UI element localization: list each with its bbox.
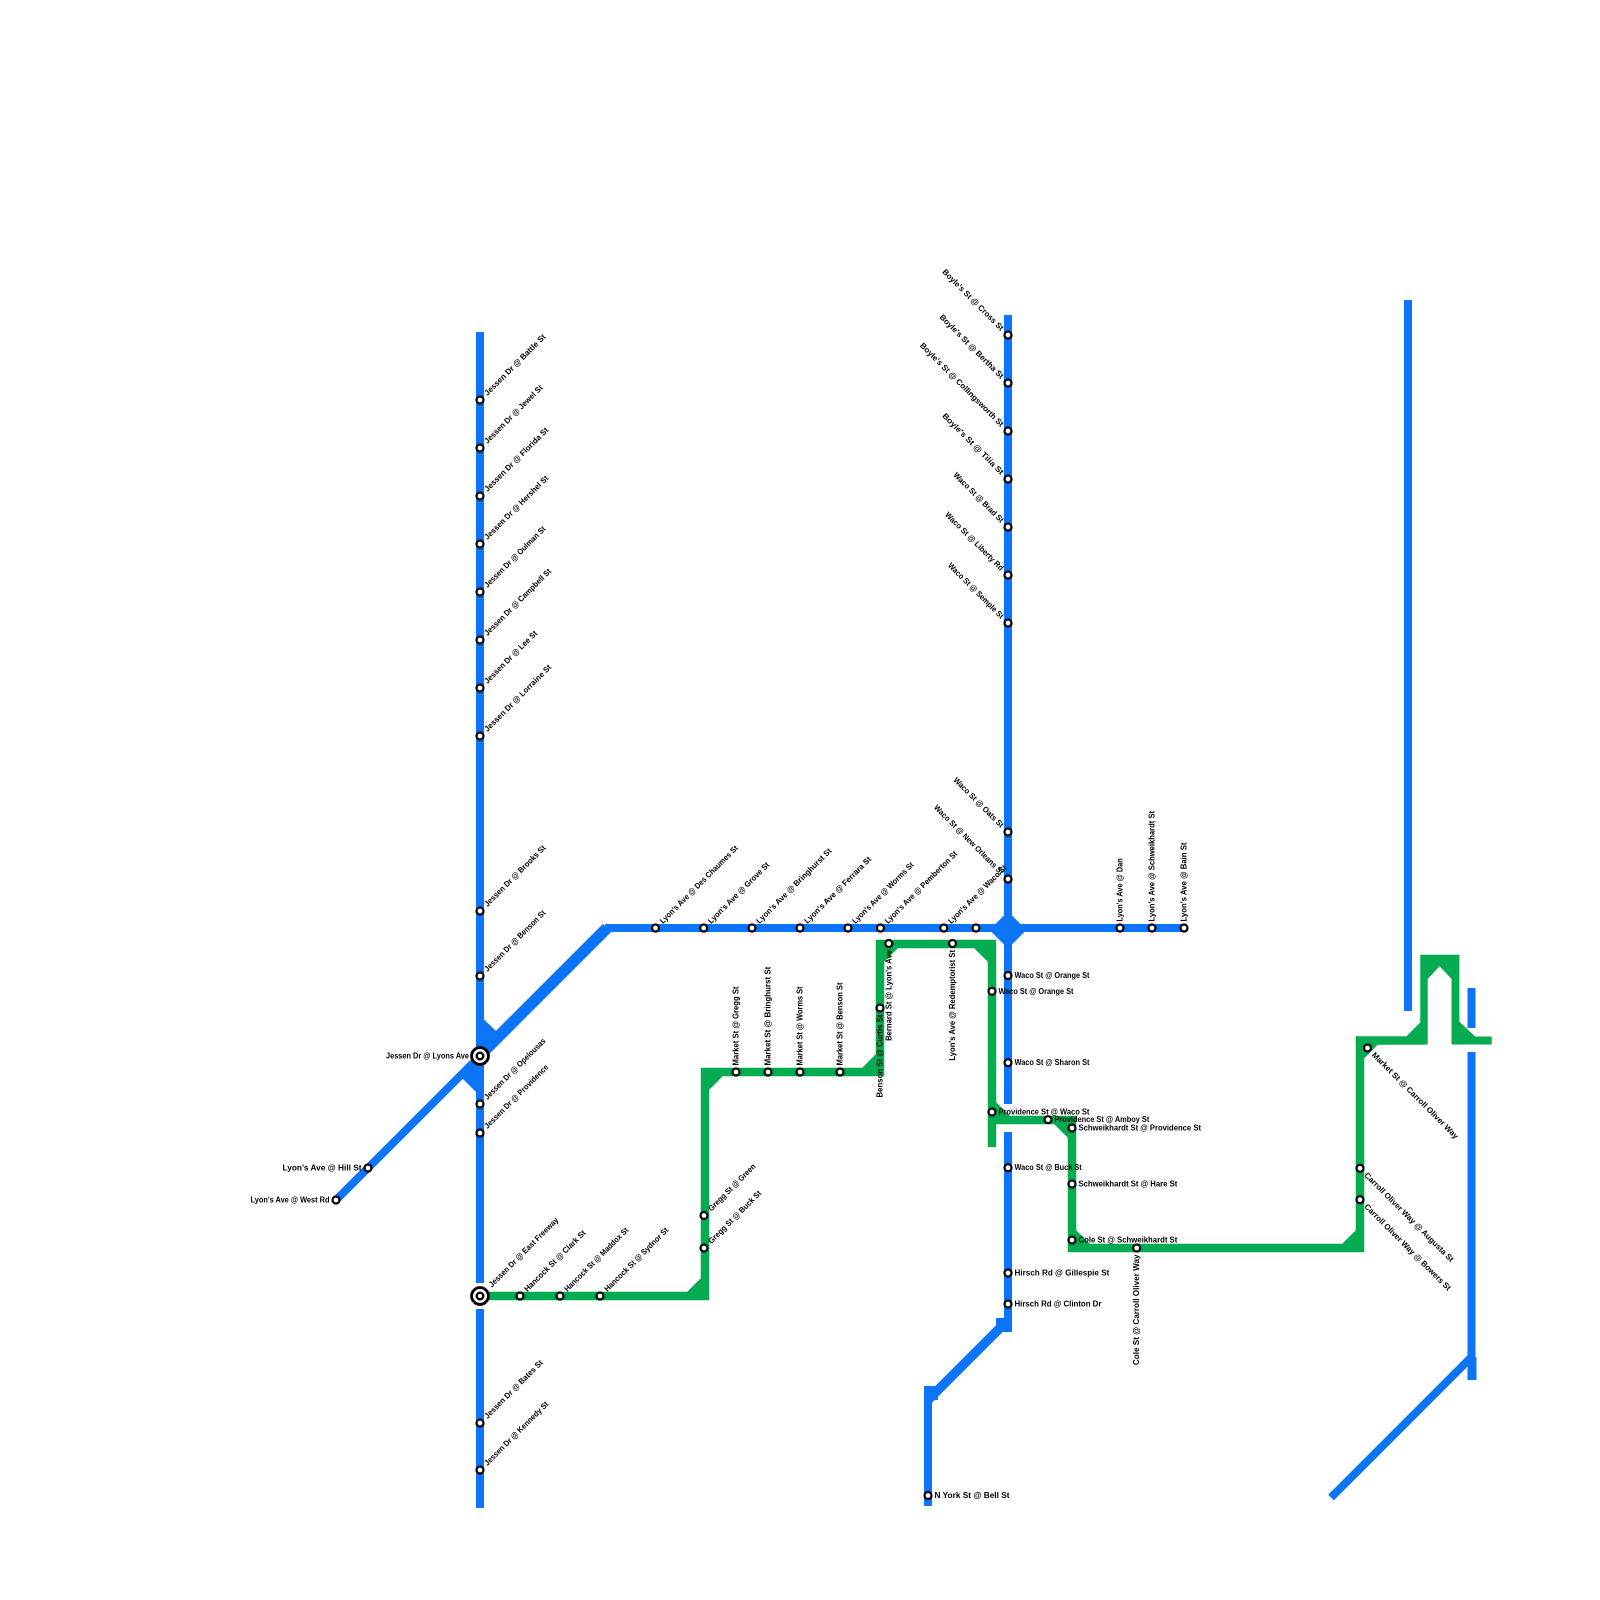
blue line: far-right vertical (upper) bbox=[1404, 300, 1412, 1011]
blue line: right vertical lower with diagonal to bottom bbox=[1331, 1052, 1472, 1498]
station: Boyle's St @ Tilia St bbox=[1005, 476, 1012, 483]
blue jog corner step lower bbox=[924, 1386, 938, 1400]
station: Market St @ Gregg St bbox=[733, 1069, 740, 1076]
station: Market St @ Worms St bbox=[797, 1069, 804, 1076]
station: Jessen Dr @ Campbell St bbox=[477, 637, 484, 644]
svg-text:Cole St @ Carroll Oliver Way: Cole St @ Carroll Oliver Way bbox=[1132, 1254, 1141, 1365]
blue line: right stub above green crossing bbox=[1468, 988, 1476, 1028]
station: Hancock St @ Sydnor St bbox=[597, 1293, 604, 1300]
station: Waco St @ Liberty Rd bbox=[1005, 572, 1012, 579]
blue gusset: corridor merge above Jessen/Lyons junction bbox=[484, 1020, 497, 1044]
station: Jessen Dr @ Brooks St bbox=[477, 908, 484, 915]
station: Hirsch Rd @ Clinton Dr bbox=[1005, 1301, 1012, 1308]
station: Waco St @ Brad St bbox=[1005, 524, 1012, 531]
station: Jessen Dr @ Jewel St bbox=[477, 445, 484, 452]
svg-text:Benson St @ Curtis St: Benson St @ Curtis St bbox=[876, 1014, 885, 1097]
svg-text:Schweikhardt St @ Hare St: Schweikhardt St @ Hare St bbox=[1079, 1180, 1178, 1189]
interchange station: Jessen Dr @ Lyons Ave bbox=[472, 1048, 489, 1065]
svg-text:Market St @ Bringhurst St: Market St @ Bringhurst St bbox=[764, 966, 773, 1065]
station: Providence St @ Amboy St bbox=[1045, 1116, 1052, 1123]
blue line: Lyon's Ave horizontal east of bend bbox=[605, 924, 1187, 932]
svg-text:Market St @ Benson St: Market St @ Benson St bbox=[836, 982, 845, 1065]
station: Waco St @ Oats St bbox=[1005, 829, 1012, 836]
station: Gregg St @ Buck St bbox=[701, 1245, 708, 1252]
station: Boyle's St @ Cross St bbox=[1005, 332, 1012, 339]
svg-text:Market St @ Worms St: Market St @ Worms St bbox=[796, 986, 805, 1065]
station: Bernard St @ Lyon's Ave bbox=[885, 940, 892, 947]
svg-text:Jessen Dr @ Lyons Ave: Jessen Dr @ Lyons Ave bbox=[386, 1052, 470, 1061]
station: Jessen Dr @ Battle St bbox=[477, 397, 484, 404]
svg-text:Lyon's Ave @ West Rd: Lyon's Ave @ West Rd bbox=[251, 1196, 330, 1205]
blue line: Lyon's Ave west diagonal from West Rd to junction bbox=[336, 1056, 480, 1200]
svg-text:Waco St @ Brad St: Waco St @ Brad St bbox=[952, 471, 1006, 525]
svg-text:Jessen Dr @ Brooks St: Jessen Dr @ Brooks St bbox=[483, 843, 548, 908]
green inner chamfer at corner (880,1072) bbox=[862, 1054, 878, 1070]
station: Jessen Dr @ Bates St bbox=[477, 1420, 484, 1427]
station: Waco St @ Buck St bbox=[1005, 1164, 1012, 1171]
station: Gregg St @ Green bbox=[701, 1212, 708, 1219]
svg-text:Waco St @ Orange St: Waco St @ Orange St bbox=[1015, 971, 1090, 980]
green inner chamfer at Gregg St corner (705,1296) bbox=[687, 1278, 703, 1294]
svg-text:Jessen Dr @ Lee St: Jessen Dr @ Lee St bbox=[483, 629, 540, 686]
interchange station: Jessen Dr @ East Freeway bbox=[472, 1288, 489, 1305]
station: Lyon's Ave @ West Rd bbox=[333, 1197, 340, 1204]
svg-text:Lyon's Ave @ Des Chaumes St: Lyon's Ave @ Des Chaumes St bbox=[658, 843, 740, 925]
station: Hirsch Rd @ Gillespie St bbox=[1005, 1270, 1012, 1277]
svg-text:Schweikhardt St @ Providence S: Schweikhardt St @ Providence St bbox=[1079, 1124, 1202, 1133]
station: Lyon's Ave @ Schweikhardt St bbox=[1149, 925, 1156, 932]
station: Cole St @ Carroll Oliver Way bbox=[1133, 1245, 1140, 1252]
station: Hancock St @ Maddox St bbox=[557, 1293, 564, 1300]
svg-text:Jessen Dr @ Benson St: Jessen Dr @ Benson St bbox=[483, 908, 548, 973]
station: Lyon's Ave @ Worms St bbox=[845, 925, 852, 932]
station: Jessen Dr @ Hershel St bbox=[477, 541, 484, 548]
svg-text:N York St @ Bell St: N York St @ Bell St bbox=[935, 1491, 1010, 1500]
station: Lyon's Ave @ Grove St bbox=[700, 925, 707, 932]
station: Jessen Dr @ Kennedy St bbox=[477, 1467, 484, 1474]
svg-text:Cole St @ Schweikhardt St: Cole St @ Schweikhardt St bbox=[1079, 1236, 1178, 1245]
svg-text:Waco St @ Orange St: Waco St @ Orange St bbox=[999, 987, 1074, 996]
station: Waco St @ Sharon St bbox=[1005, 1059, 1012, 1066]
svg-text:Hirsch Rd @ Gillespie St: Hirsch Rd @ Gillespie St bbox=[1015, 1269, 1110, 1278]
station: Schweikhardt St @ Providence St bbox=[1069, 1125, 1076, 1132]
svg-text:Lyon's Ave @ Hill St: Lyon's Ave @ Hill St bbox=[283, 1164, 362, 1173]
green inner chamfer at corner (1360,1248) bbox=[1342, 1230, 1358, 1246]
blue line: shared corridor band junction to bend bbox=[479, 928, 607, 1056]
svg-text:Lyon's Ave @ Bringhurst St: Lyon's Ave @ Bringhurst St bbox=[755, 846, 834, 925]
station: Lyon's Ave @ Ferrara St bbox=[797, 925, 804, 932]
blue diamond interchange at Lyon's Ave / Waco St hub bbox=[990, 912, 1027, 949]
station: Schweikhardt St @ Hare St bbox=[1069, 1181, 1076, 1188]
svg-text:Lyon's Ave @ Schweikhardt St: Lyon's Ave @ Schweikhardt St bbox=[1148, 811, 1157, 922]
svg-text:Lyon's Ave @ Waco St: Lyon's Ave @ Waco St bbox=[946, 863, 1008, 925]
svg-text:Market St @ Gregg St: Market St @ Gregg St bbox=[732, 986, 741, 1065]
station: Boyle's St @ Collingsworth St bbox=[1005, 428, 1012, 435]
station: Market St @ Carroll Oliver Way bbox=[1364, 1045, 1371, 1052]
svg-text:Waco St @ Oats St: Waco St @ Oats St bbox=[952, 776, 1006, 830]
station: Carroll Oliver Way @ Augusta St bbox=[1357, 1165, 1364, 1172]
station: Lyon's Ave @ Bringhurst St bbox=[749, 925, 756, 932]
green inner chamfer at corner (1072,1120) bbox=[1054, 1122, 1070, 1138]
blue jog diagonal widening bbox=[928, 1320, 1008, 1400]
station: Jessen Dr @ Oulman St bbox=[477, 589, 484, 596]
svg-text:Lyon's Ave @ Dan: Lyon's Ave @ Dan bbox=[1116, 858, 1125, 921]
green castle structure at Carroll Oliver Way terminal bbox=[1356, 955, 1492, 1045]
blue gusset: corridor merge below Jessen/Lyons junction bbox=[462, 1064, 476, 1092]
station: Benson St @ Curtis St bbox=[877, 1005, 884, 1012]
station: Lyon's Ave @ Redemptorist St bbox=[949, 940, 956, 947]
green line: main route East Freeway to Carroll Oliver Way bbox=[480, 944, 1424, 1296]
station: Lyon's Ave @ Waco St bbox=[940, 925, 947, 932]
svg-text:Jessen Dr @ East Freeway: Jessen Dr @ East Freeway bbox=[487, 1215, 561, 1289]
station: Jessen Dr @ Lorraine St bbox=[477, 733, 484, 740]
blue line: Jessen Dr vertical (below East Freeway interchange) bbox=[476, 1309, 484, 1508]
svg-text:Hirsch Rd @ Clinton Dr: Hirsch Rd @ Clinton Dr bbox=[1015, 1300, 1102, 1309]
station: Market St @ Bringhurst St bbox=[765, 1069, 772, 1076]
green inner chamfer at corner (992,944) bbox=[974, 946, 990, 962]
svg-text:Waco St @ Buck St: Waco St @ Buck St bbox=[1015, 1163, 1083, 1172]
station: Hancock St @ Clark St bbox=[517, 1293, 524, 1300]
station: Jessen Dr @ Benson St bbox=[477, 973, 484, 980]
station: bbox=[973, 925, 980, 932]
station: Cole St @ Schweikhardt St bbox=[1069, 1237, 1076, 1244]
blue line: Waco/Boyle vertical upper (above green crossing) bbox=[1004, 315, 1012, 1104]
svg-text:Bernard St @ Lyon's Ave: Bernard St @ Lyon's Ave bbox=[884, 949, 893, 1040]
station: Lyon's Ave @ Pemberton St bbox=[877, 925, 884, 932]
green inner chamfer at Market St corner (705,1072) bbox=[707, 1074, 723, 1090]
station: Providence St @ Waco St bbox=[989, 1109, 996, 1116]
blue line: Waco vertical lower with jog to N York St bbox=[928, 1132, 1008, 1506]
station: Jessen Dr @ Opelousas bbox=[477, 1101, 484, 1108]
station: Boyle's St @ Bertha St bbox=[1005, 380, 1012, 387]
station: Lyon's Ave @ Des Chaumes St bbox=[652, 925, 659, 932]
blue line: Jessen Dr vertical (above East Freeway interchange) bbox=[476, 332, 484, 1283]
station: Waco St @ Semple St bbox=[1005, 620, 1012, 627]
station: Jessen Dr @ Lee St bbox=[477, 685, 484, 692]
green stub below Providence St @ Waco St corner bbox=[988, 1122, 997, 1147]
green inner chamfer at corner (1072,1248) bbox=[1074, 1230, 1090, 1246]
station: Lyon's Ave @ Bain St bbox=[1181, 925, 1188, 932]
green inner chamfer at corner (1360,1040) bbox=[1362, 1043, 1378, 1059]
station: Lyon's Ave @ Dan bbox=[1117, 925, 1124, 932]
svg-text:Lyon's Ave @ Bain St: Lyon's Ave @ Bain St bbox=[1180, 842, 1189, 921]
station: Lyon's Ave @ Hill St bbox=[365, 1165, 372, 1172]
station: N York St @ Bell St bbox=[925, 1492, 932, 1499]
blue jog corner step at right vertical bend bbox=[1468, 1357, 1477, 1380]
station: Waco St @ Orange St bbox=[1005, 972, 1012, 979]
station: Waco St @ Orange St bbox=[989, 988, 996, 995]
svg-text:Lyon's Ave @ Redemptorist St: Lyon's Ave @ Redemptorist St bbox=[948, 950, 957, 1061]
station: Jessen Dr @ Florida St bbox=[477, 493, 484, 500]
station: Waco St @ New Orleans St bbox=[1005, 876, 1012, 883]
station: Market St @ Benson St bbox=[837, 1069, 844, 1076]
svg-text:Market St @ Carroll Oliver Way: Market St @ Carroll Oliver Way bbox=[1370, 1051, 1461, 1142]
station: Carroll Oliver Way @ Bowers St bbox=[1357, 1196, 1364, 1203]
green inner chamfer at corner (992,1120) bbox=[994, 1102, 1010, 1118]
svg-text:Boyle's St @ Collingsworth St: Boyle's St @ Collingsworth St bbox=[918, 341, 1006, 429]
green inner chamfer at corner (880,944) bbox=[882, 946, 898, 962]
blue jog corner step upper bbox=[996, 1318, 1012, 1332]
station: Jessen Dr @ Providence bbox=[477, 1130, 484, 1137]
svg-text:Waco St @ Sharon St: Waco St @ Sharon St bbox=[1015, 1058, 1090, 1067]
